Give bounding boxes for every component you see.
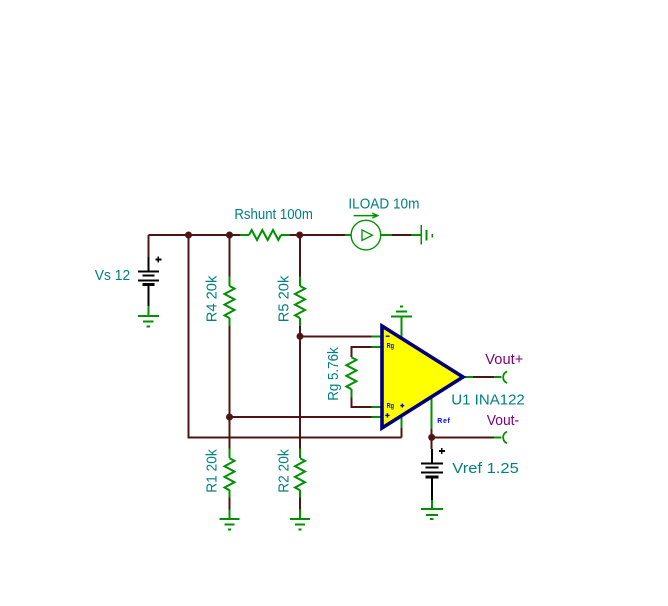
svg-text:Rg: Rg	[387, 403, 394, 410]
svg-text:Vref 1.25: Vref 1.25	[452, 461, 519, 477]
svg-text:R2 20k: R2 20k	[277, 449, 293, 493]
svg-text:Vout-: Vout-	[487, 413, 520, 429]
svg-text:R5 20k: R5 20k	[277, 275, 293, 322]
svg-text:R4 20k: R4 20k	[205, 275, 221, 322]
svg-text:R1 20k: R1 20k	[205, 449, 221, 493]
svg-text:Ref: Ref	[437, 418, 450, 425]
svg-text:Rg: Rg	[387, 343, 394, 350]
svg-text:U1 INA122: U1 INA122	[451, 393, 525, 409]
svg-text:Vout+: Vout+	[485, 352, 523, 368]
svg-text:Rg 5.76k: Rg 5.76k	[326, 347, 342, 401]
svg-text:Vs 12: Vs 12	[95, 268, 130, 284]
svg-text:ILOAD 10m: ILOAD 10m	[348, 197, 419, 213]
svg-text:Rshunt 100m: Rshunt 100m	[234, 207, 313, 223]
